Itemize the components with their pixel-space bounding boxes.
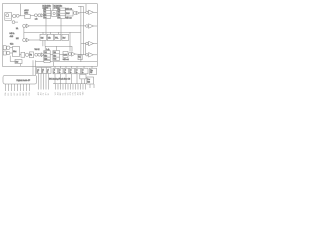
wire (30, 14, 34, 16)
svg-text:Tim: Tim (90, 70, 93, 72)
pin stub (57, 84, 59, 90)
block: control 2 (47, 34, 53, 40)
wire (81, 43, 86, 45)
wire (50, 54, 53, 56)
pin stub (93, 84, 95, 88)
wire (65, 74, 67, 84)
label agc (24, 9, 29, 14)
wire: bottom rail (53, 83, 87, 85)
output amp A2 (86, 10, 98, 14)
wire (53, 62, 55, 67)
block: vmid (78, 55, 82, 60)
svg-text:io: io (70, 72, 71, 74)
amplifier A5 (26, 38, 40, 42)
svg-text:SCL: SCL (8, 93, 10, 96)
wire (60, 74, 62, 84)
pin stub (17, 84, 19, 91)
pin stub (23, 84, 25, 91)
svg-text:DAC: DAC (66, 12, 70, 15)
svg-text:I2C Analog Flash Bus Ctl: I2C Analog Flash Bus Ctl (49, 77, 71, 80)
input node N2 (23, 39, 26, 42)
svg-text:DAC: DAC (64, 54, 68, 57)
svg-text:VRF: VRF (55, 92, 57, 95)
wire (50, 61, 97, 63)
amplifier A4 (26, 24, 29, 28)
block: hpf (25, 15, 30, 19)
svg-text:Digital Audio IF: Digital Audio IF (17, 79, 31, 82)
pin stub (45, 74, 47, 90)
pin stub (83, 66, 85, 68)
wire (60, 54, 64, 56)
svg-text:CS: CS (43, 93, 45, 95)
block: ctrl box 3 (64, 68, 69, 74)
wire (42, 41, 44, 47)
svg-text:Flt: Flt (30, 54, 32, 57)
amplifier A1b (76, 11, 85, 14)
pin stub (48, 74, 50, 90)
svg-text:Ref: Ref (63, 37, 66, 39)
output amp A9 (86, 53, 98, 57)
block: timing gen (80, 74, 86, 79)
svg-text:0.5x: 0.5x (10, 44, 13, 46)
mixer node M1 (25, 53, 28, 56)
svg-text:bd: bd (42, 69, 44, 71)
svg-text:L ch: L ch (46, 49, 49, 51)
block: ctrl box 7 (90, 68, 97, 74)
svg-text:Mux: Mux (13, 51, 16, 53)
wire (29, 25, 85, 27)
svg-text:GND: GND (26, 91, 28, 95)
block: ctrl box 4 (70, 68, 75, 74)
node pair (35, 53, 41, 56)
svg-text:Por: Por (87, 79, 90, 81)
wire (84, 79, 86, 84)
jack input 1 (3, 46, 12, 50)
input node N0 (12, 21, 18, 24)
wire (42, 32, 44, 34)
svg-text:ct: ct (54, 69, 56, 72)
svg-text:io: io (65, 72, 66, 74)
svg-text:ct: ct (82, 69, 84, 72)
wire (20, 54, 22, 56)
input node N1 (23, 24, 26, 27)
pin stub (89, 84, 91, 88)
svg-text:io: io (42, 72, 43, 74)
wire (85, 44, 87, 55)
svg-text:inR: inR (16, 38, 19, 40)
wire (10, 61, 15, 63)
block: ctrl box 5 (76, 68, 81, 74)
label caption L (42, 5, 51, 10)
svg-text:adc: adc (35, 18, 38, 20)
block: digital interface (3, 75, 37, 84)
block: mid table R (53, 51, 60, 61)
wire (52, 4, 54, 11)
svg-text:0dB out: 0dB out (63, 58, 69, 61)
block: dac L (63, 52, 69, 61)
svg-text:ct: ct (70, 69, 72, 72)
svg-text:Dig: Dig (58, 9, 60, 11)
wire: bus rail 2 (82, 6, 84, 55)
svg-text:0dB out: 0dB out (66, 17, 72, 20)
wire (81, 79, 83, 84)
block: bottom right (87, 77, 94, 84)
label caption R (54, 5, 63, 10)
output amp A8 (86, 41, 98, 45)
wire (44, 46, 46, 50)
svg-text:io: io (54, 72, 55, 74)
svg-text:BCK: BCK (11, 92, 13, 96)
svg-text:SE: SE (48, 93, 50, 95)
jack input 2 (3, 51, 12, 55)
pin stub (55, 84, 57, 90)
svg-text:SPI: SPI (46, 92, 48, 95)
svg-text:Mix: Mix (53, 55, 56, 57)
pin stub (72, 84, 74, 90)
wire (35, 60, 37, 75)
pin stub (26, 84, 28, 91)
wire: bus rail 1 (80, 6, 82, 62)
svg-text:SDA: SDA (4, 92, 7, 96)
IC boundary (2, 4, 97, 67)
pin stub (60, 66, 62, 68)
pin stub (77, 84, 79, 90)
svg-text:OTL: OTL (68, 92, 70, 95)
svg-text:INL: INL (63, 93, 65, 96)
wire (36, 60, 44, 62)
block: pin cell row (37, 68, 52, 74)
block: control 1 (40, 34, 46, 40)
pin stub (65, 66, 67, 68)
wire (60, 18, 62, 34)
block: ADC table (43, 8, 50, 19)
svg-text:io: io (82, 72, 83, 74)
svg-text:DTO: DTO (20, 92, 22, 96)
svg-text:Ref: Ref (16, 61, 19, 63)
summing node S1b (16, 14, 19, 17)
block: mic bias (5, 13, 12, 21)
wire (45, 45, 72, 47)
amplifier A1 (41, 14, 44, 17)
wire (55, 46, 57, 50)
pin stub (5, 84, 7, 91)
svg-text:Ctrl: Ctrl (41, 36, 44, 39)
svg-text:inL: inL (16, 28, 18, 30)
wire (69, 32, 71, 51)
svg-text:Vol Ctl: Vol Ctl (35, 48, 41, 51)
pin stub (85, 84, 87, 90)
pin stub (75, 84, 77, 90)
wire (19, 4, 21, 16)
svg-text:ad: ad (37, 69, 39, 71)
svg-text:OTR: OTR (70, 91, 72, 95)
wire (19, 15, 25, 17)
pin stub (20, 84, 22, 91)
wire (32, 60, 34, 75)
block: mid table L (44, 51, 50, 61)
svg-text:VDD: VDD (29, 92, 31, 96)
svg-text:Clk: Clk (48, 37, 51, 39)
svg-text:AD0: AD0 (37, 92, 40, 95)
wire (45, 18, 47, 34)
svg-text:DIN: DIN (17, 92, 19, 96)
block: ctrl box 1 (53, 68, 58, 74)
block: sigma delta (52, 11, 57, 17)
wire: mid rail (24, 31, 81, 33)
pin stub (54, 66, 56, 68)
pin stub (38, 74, 40, 90)
amplifier A6 (41, 53, 44, 57)
svg-text:MCK: MCK (23, 91, 25, 95)
svg-text:Mix: Mix (44, 14, 47, 16)
svg-text:io: io (47, 72, 48, 74)
svg-text:HPR: HPR (75, 91, 77, 95)
pin stub (65, 84, 67, 90)
svg-text:ct: ct (59, 69, 61, 72)
pin stub (11, 84, 13, 91)
block: osc (44, 60, 51, 63)
svg-text:PLL: PLL (55, 37, 58, 39)
wire (58, 32, 60, 34)
block: control 4 (62, 34, 69, 40)
pin stub (70, 84, 72, 90)
wire (71, 46, 73, 51)
svg-text:ct: ct (76, 69, 78, 72)
block: filter (29, 52, 33, 58)
pin stub (8, 84, 10, 91)
svg-text:MIC: MIC (60, 92, 62, 96)
wire (85, 4, 87, 11)
svg-text:Mix: Mix (44, 55, 47, 57)
wire (50, 32, 52, 34)
wire (44, 41, 46, 47)
block: ctrl box 6 (82, 68, 89, 74)
wire (71, 74, 73, 84)
wire (9, 56, 11, 62)
pin stub (14, 84, 16, 91)
pin stub (91, 66, 93, 68)
pin stub (29, 84, 31, 91)
block: control 3 (55, 34, 61, 40)
wire (78, 5, 83, 7)
output amp A3 (86, 24, 98, 28)
svg-text:-6dB: -6dB (10, 36, 14, 38)
svg-text:VMD: VMD (83, 91, 85, 95)
svg-text:io: io (59, 72, 60, 74)
pin stub (40, 74, 42, 90)
svg-text:HPL: HPL (73, 92, 75, 95)
summing node S3 (38, 14, 41, 17)
pin stub (76, 66, 78, 68)
block: ctrl box 2 (59, 68, 64, 74)
svg-text:cd: cd (47, 69, 49, 71)
svg-text:io: io (76, 72, 77, 74)
summing node S2 (35, 14, 38, 17)
svg-text:ct: ct (65, 69, 67, 72)
block: dac R (65, 10, 73, 20)
block: DAC table (57, 8, 65, 19)
block: bias ref (15, 60, 22, 64)
amplifier A7 (72, 52, 86, 56)
block: pga (21, 52, 25, 57)
pin stub (62, 84, 64, 90)
wire (76, 74, 78, 84)
wire (54, 74, 56, 84)
block: input mux (10, 44, 20, 57)
pin stub (80, 84, 82, 90)
svg-text:INR: INR (65, 92, 67, 96)
svg-text:io: io (37, 72, 38, 74)
mixer node M0 (73, 12, 76, 15)
pin stub (67, 84, 69, 90)
mixer node M2 (69, 53, 72, 56)
summing node S1 (12, 14, 16, 17)
svg-text:LRC: LRC (14, 92, 16, 96)
pin stub (43, 74, 45, 90)
wire (20, 64, 22, 67)
svg-text:AGC: AGC (24, 11, 29, 14)
pin stub (82, 84, 84, 90)
pin stub (60, 84, 62, 90)
wire (23, 27, 25, 38)
pin stub (71, 66, 73, 68)
